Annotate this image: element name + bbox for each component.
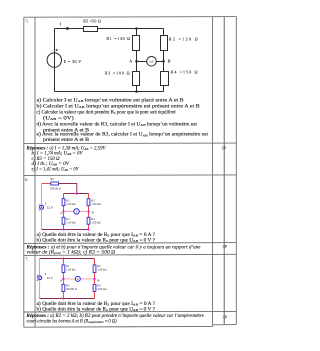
wire bottom (55, 91, 164, 93)
wire bridge bottom (64, 229, 89, 231)
wire right branch upper (163, 29, 165, 36)
answers 6 text (27, 245, 202, 255)
row number 7 (25, 256, 28, 261)
svg-text:E = 30 V: E = 30 V (64, 59, 82, 64)
svg-text:3P: 3P (221, 146, 226, 151)
svg-text:R5 =50 Ω: R5 =50 Ω (83, 18, 101, 23)
svg-text:a) Quelle doit être la valeur: a) Quelle doit être la valeur de R2 pour… (37, 302, 156, 307)
svg-text:c) Calculer la valeur que doit: c) Calculer la valeur que doit prendre R… (37, 110, 177, 115)
wire top left pink (42, 183, 51, 185)
wire R5 to corner (59, 184, 77, 194)
wire bridge A to meter (137, 61, 147, 63)
svg-text:a) Quelle doit être la valeur: a) Quelle doit être la valeur de R5 pour… (37, 233, 156, 238)
current arrow I (60, 22, 72, 31)
svg-text:7.: 7. (25, 256, 28, 261)
resistor R2 body (87, 199, 90, 206)
wire right column c3 (red) (94, 259, 96, 299)
label R4 value (171, 69, 198, 74)
source E circle (47, 53, 61, 67)
label node A c3 (60, 279, 63, 283)
label R5 value (83, 18, 101, 23)
svg-text:B: B (92, 210, 95, 214)
resistor R1 body c3 (62, 265, 65, 273)
svg-text:500.00 Ω: 500.00 Ω (50, 187, 61, 191)
label E = 30 V (64, 59, 82, 64)
svg-text:500.00 Ω: 500.00 Ω (66, 287, 77, 291)
label R1 value (106, 36, 130, 41)
wire bridge middle left (65, 210, 74, 212)
svg-text:1.00 kΩ: 1.00 kΩ (66, 268, 75, 272)
answers 7 text (27, 314, 205, 324)
label node B (168, 58, 171, 63)
answers 5 text (27, 146, 107, 172)
labels circuit 2 (45, 177, 101, 224)
table grid (24, 17, 237, 328)
resistor R5 body (blue) (51, 182, 59, 185)
junction bottom right c2 (87, 228, 89, 230)
wire right branch lower (163, 86, 165, 92)
svg-text:e) I = 1,41 mA; UAB = 0V: e) I = 1,41 mA; UAB = 0V (32, 167, 80, 172)
wire top right segment (98, 28, 164, 30)
wire top left segment (55, 28, 84, 30)
svg-text:A: A (77, 277, 79, 281)
wire middle left c3 (65, 278, 76, 280)
svg-text:1.00 kΩ: 1.00 kΩ (91, 221, 100, 225)
svg-text:R4 =150 Ω: R4 =150 Ω (171, 69, 198, 74)
labels circuit 3 (45, 264, 107, 291)
wire right branch mid (163, 51, 165, 72)
label node A (129, 59, 132, 64)
svg-text:court-circuite les bornes A et: court-circuite les bornes A et B (Rampèr… (27, 319, 117, 324)
svg-text:3P: 3P (222, 244, 227, 249)
junction bottom left c2 (62, 228, 64, 230)
svg-text:b) I = 1,74 mA; UAB = 0V: b) I = 1,74 mA; UAB = 0V (32, 151, 84, 156)
label source voltage (47, 205, 53, 209)
junction top feed (76, 192, 78, 194)
node B junction (162, 60, 165, 63)
wire bottom c3 (40, 298, 95, 300)
wire left column c3 (red) (62, 259, 64, 299)
wire left rail lower c3 (39, 280, 41, 299)
wire left rail upper (41, 184, 43, 205)
junction node B c3 (93, 278, 95, 280)
junction node B (87, 210, 89, 212)
voltmeter circle (74, 209, 79, 214)
label node B c3 (97, 278, 100, 282)
svg-text:B: B (97, 278, 100, 282)
label source voltage c3 (47, 276, 53, 280)
source E symbol (39, 204, 44, 210)
svg-text:e) Avec la nouvelle valeur de: e) Avec la nouvelle valeur de R3, calcul… (37, 133, 209, 138)
svg-text:12 V: 12 V (47, 205, 53, 209)
question 7 text (37, 302, 156, 313)
resistor R1 body (133, 36, 140, 51)
points 6 (222, 244, 227, 249)
wire right column segments (red) (88, 194, 90, 230)
resistor R4 body (161, 72, 169, 86)
wire left rail lower (41, 209, 43, 229)
resistor R1 body (62, 199, 65, 206)
svg-text:d) Avec la nouvelle valeur de: d) Avec la nouvelle valeur de R3, calcul… (37, 122, 198, 127)
svg-text:mA: mA (150, 60, 154, 63)
svg-text:1.00 kΩ: 1.00 kΩ (66, 202, 75, 206)
label meter mA (150, 60, 154, 63)
wire left rail upper c3 (39, 259, 41, 276)
svg-text:A: A (129, 59, 132, 64)
svg-text:5.: 5. (25, 18, 28, 23)
svg-text:R2 =120 Ω: R2 =120 Ω (169, 36, 198, 41)
svg-text:1.00 kΩ: 1.00 kΩ (97, 268, 106, 272)
resistor R4 body c3 (93, 284, 96, 291)
label R2 value (169, 36, 198, 41)
junction node A c3 (62, 278, 64, 280)
row number 5 (25, 18, 28, 23)
svg-text:b) Quelle doit être la valeur: b) Quelle doit être la valeur de R5 pour… (37, 238, 156, 243)
svg-text:(UAB = 0V): (UAB = 0V) (43, 116, 74, 121)
node A junction (135, 60, 138, 63)
node top junction (135, 27, 138, 30)
wire left branch upper (136, 29, 138, 36)
junction bottom c3 (62, 297, 64, 299)
wire bottom left (42, 229, 64, 231)
svg-text:1.00 kΩ: 1.00 kΩ (66, 221, 75, 225)
wire meter to B (156, 61, 163, 63)
resistor R3 body c3 (62, 284, 65, 291)
svg-text:R3 =100 Ω: R3 =100 Ω (105, 71, 130, 76)
label R3 value (105, 71, 130, 76)
plus sign of source (56, 49, 58, 51)
resistor R3 body (62, 217, 65, 224)
svg-text:R5: R5 (51, 177, 55, 181)
resistor R5 body (84, 27, 98, 32)
svg-text:6.: 6. (25, 177, 28, 182)
points 7 (222, 314, 227, 319)
wire left branch lower (136, 86, 138, 92)
wire source rail (54, 29, 56, 92)
wire bridge middle right (79, 210, 87, 212)
wire top c3 (40, 258, 95, 260)
svg-text:12 V: 12 V (47, 276, 53, 280)
node bottom junction (135, 90, 138, 93)
question 5 text (37, 98, 209, 143)
junction top c3 (62, 257, 64, 259)
source E c3 (37, 275, 42, 281)
svg-text:1.00 kΩ: 1.00 kΩ (91, 202, 100, 206)
wire left branch mid (136, 51, 138, 72)
svg-text:R1 =130 Ω: R1 =130 Ω (106, 36, 130, 41)
svg-text:I: I (60, 22, 62, 27)
resistor R3 body (133, 72, 140, 86)
label node B c2 (92, 210, 95, 214)
svg-text:b) Calculer I et UAB lorsqu’un: b) Calculer I et UAB lorsqu’un ampèremèt… (37, 104, 201, 109)
svg-text:2.00 kΩ: 2.00 kΩ (97, 287, 106, 291)
row number 6 (25, 177, 28, 182)
ammeter circle c3 (75, 276, 80, 281)
label node A c2 (60, 211, 63, 215)
svg-text:b) Quelle doit être la valeur: b) Quelle doit être la valeur de R2 pour… (37, 307, 156, 312)
svg-text:valeur de (Rpont = 1 kΩ); c) R: valeur de (Rpont = 1 kΩ); c) R3 = 500 Ω (27, 250, 116, 255)
svg-text:d) I th.; UAB = 0V: d) I th.; UAB = 0V (32, 162, 71, 167)
question 6 text (37, 233, 156, 244)
resistor R2 body c3 (93, 265, 96, 273)
ammeter U1 circle (147, 57, 157, 67)
wire middle right c3 (80, 278, 93, 280)
wire bridge top (64, 193, 89, 195)
svg-text:a) Calculer I et UAB lorsqu’un: a) Calculer I et UAB lorsqu’un voltmètre… (37, 98, 185, 103)
svg-text:présent entre A et B: présent entre A et B (43, 138, 90, 143)
junction node A (62, 210, 64, 212)
svg-text:V: V (76, 210, 78, 214)
resistor R4 body (87, 217, 90, 224)
svg-text:B: B (168, 58, 171, 63)
resistor R2 body (161, 36, 168, 51)
wire left column segments (red) (63, 194, 65, 230)
points 5 (221, 146, 226, 151)
svg-text:3P: 3P (222, 314, 227, 319)
